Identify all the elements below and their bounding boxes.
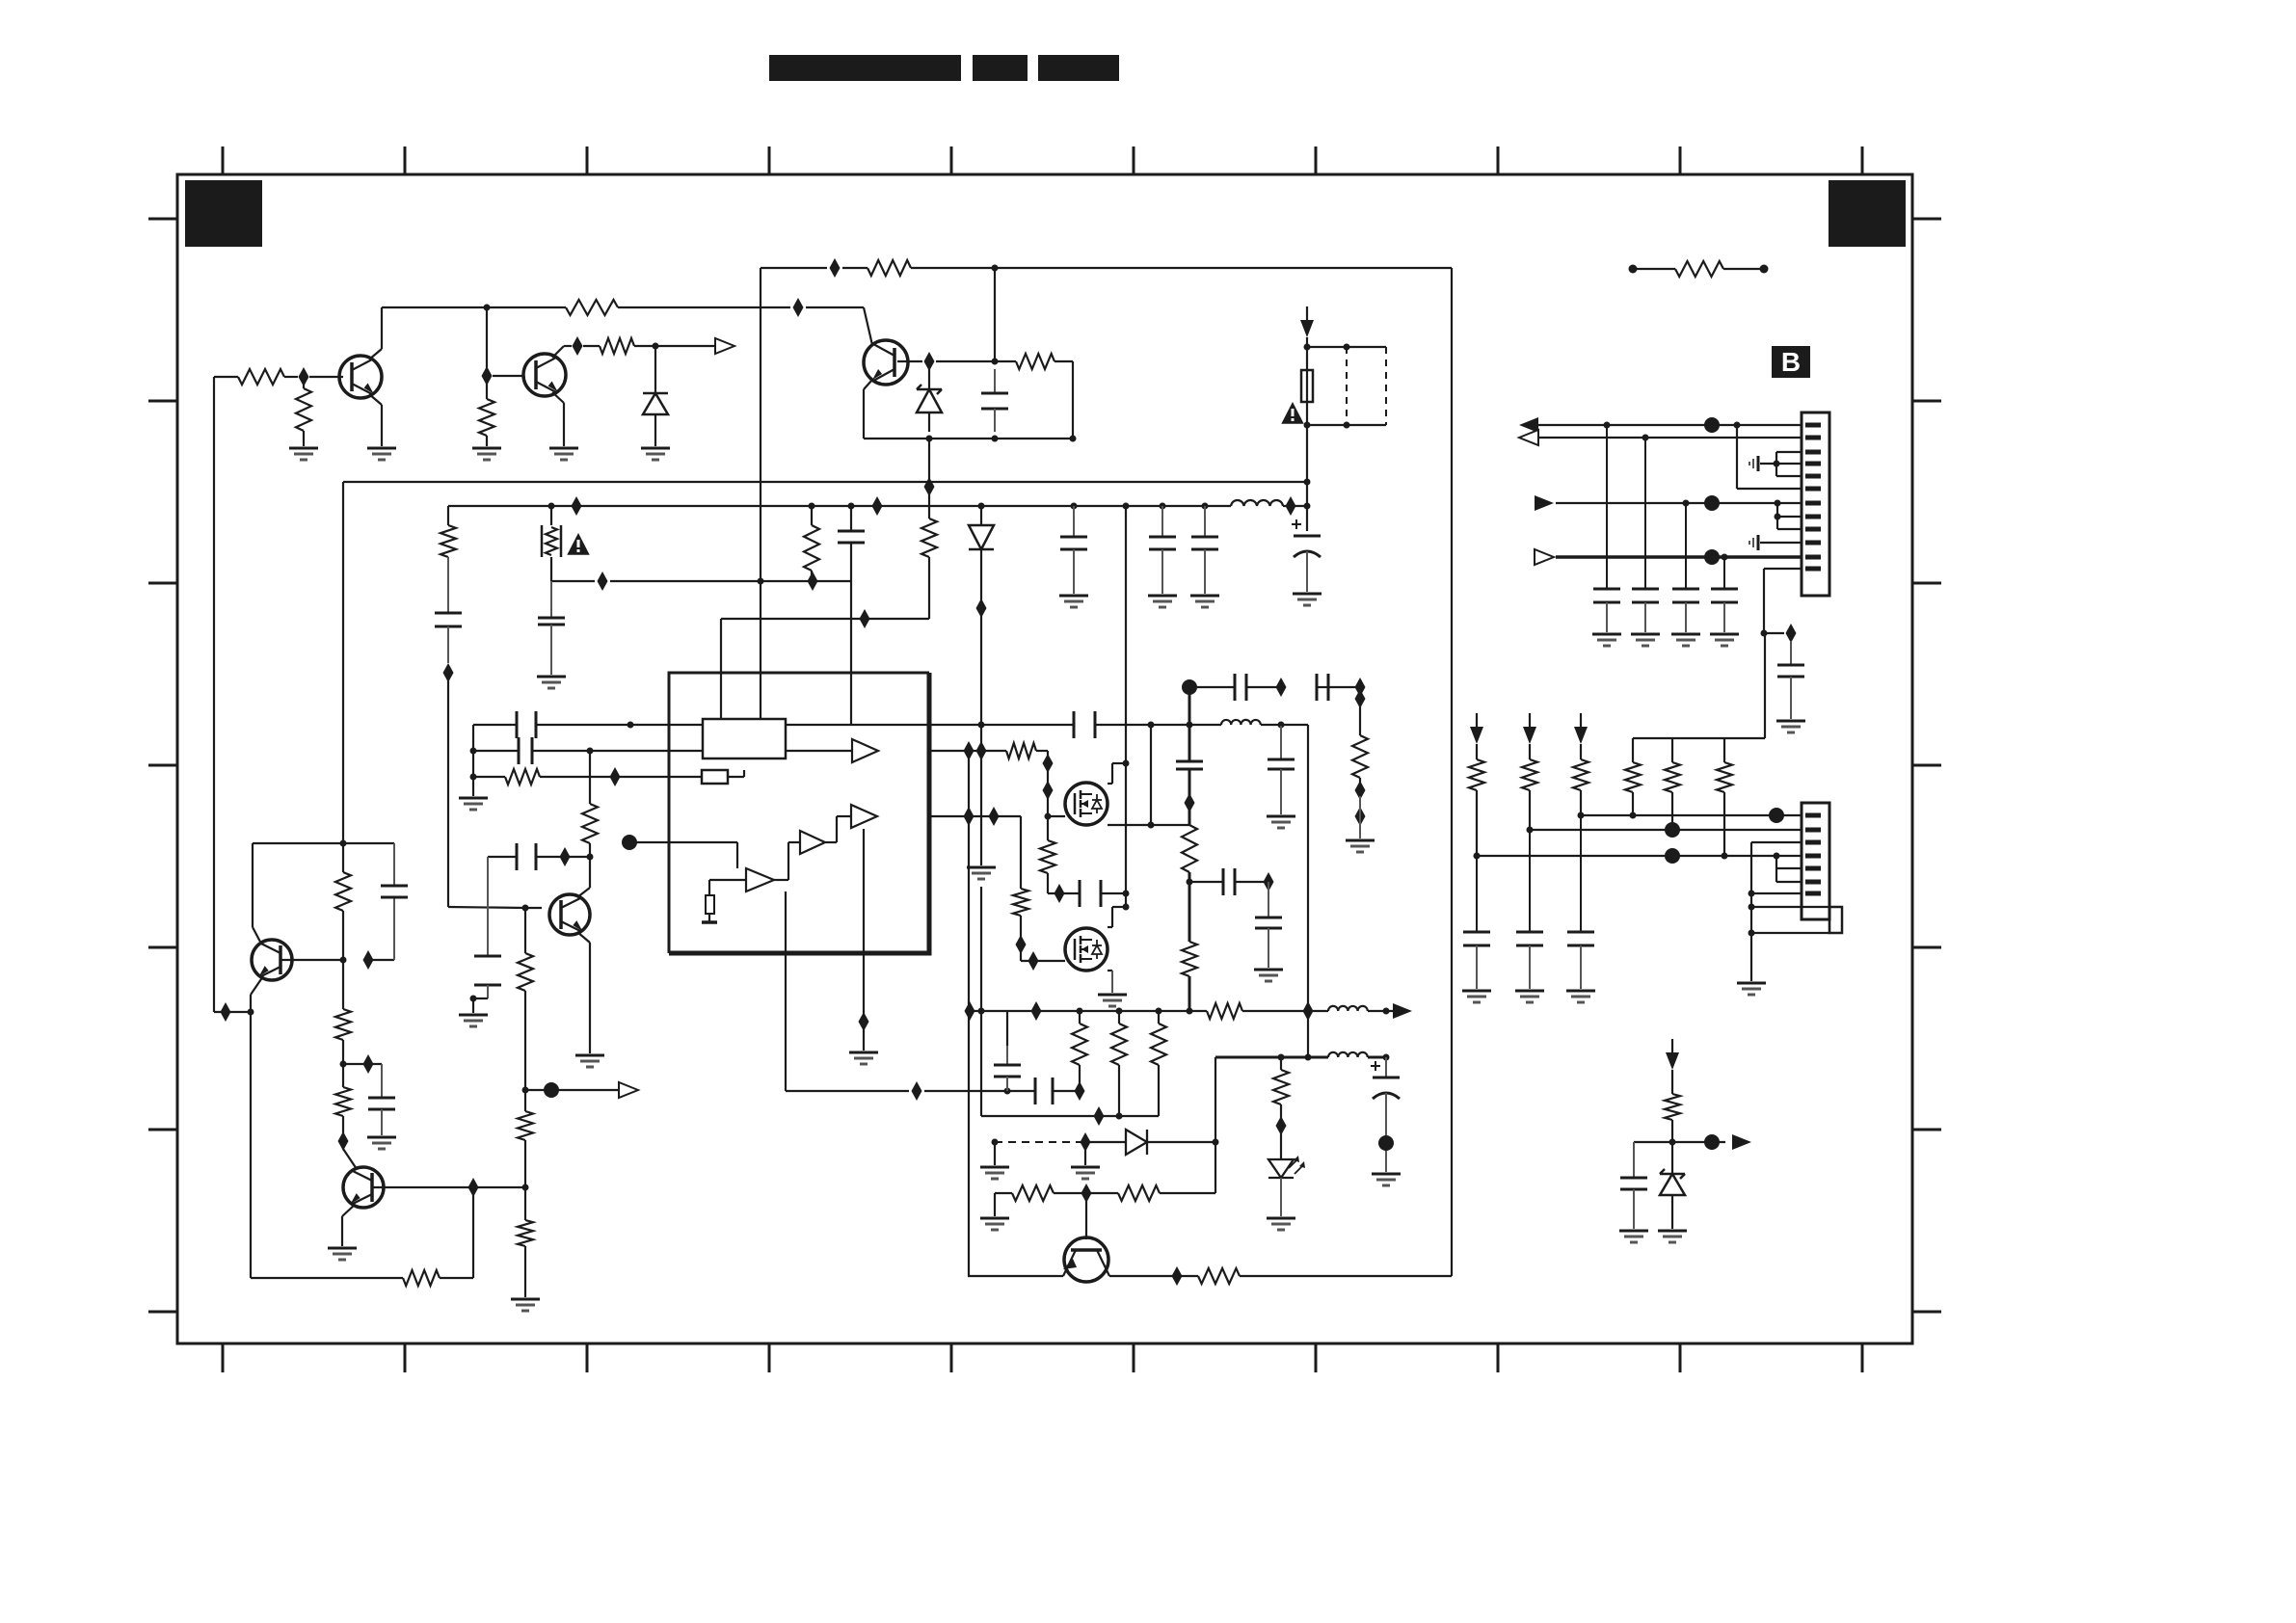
capacitor C5	[538, 581, 565, 675]
node dot A1	[484, 305, 491, 311]
node diamond AK1	[1276, 1116, 1287, 1135]
wire fuse to bus	[1306, 402, 1308, 531]
wire chain x=1640 lower	[1580, 815, 1582, 932]
wire CN2 tail link2	[1751, 907, 1829, 933]
bus2 node dot x=842	[809, 503, 815, 510]
capacitor C11	[517, 711, 536, 738]
wire Q4 base	[280, 959, 343, 961]
node diamond V1	[964, 807, 974, 826]
node dot AG3	[1213, 1139, 1219, 1146]
resistor R22	[1182, 825, 1197, 872]
node diamond on Q2 base	[482, 366, 493, 386]
wire Q2 emitter	[552, 392, 564, 446]
IC U1 outline	[669, 673, 929, 953]
resistor R15	[335, 843, 351, 960]
resistor R6	[1016, 354, 1055, 369]
wire net I (y=779)	[473, 750, 703, 752]
node dot AJ1	[1278, 1054, 1285, 1061]
ground under pin3 net	[1737, 983, 1766, 995]
resistor R13	[518, 1090, 533, 1187]
wire AG riser (x=1261)	[1215, 1057, 1216, 1193]
wire net AR (y=766)	[1633, 633, 1765, 738]
node dot AG1	[992, 1139, 999, 1146]
node dot P2	[248, 1009, 254, 1016]
op-amp U1b	[851, 805, 877, 828]
bus2 node dot x=1114	[1071, 503, 1078, 510]
terminal big dot Z	[1182, 679, 1197, 695]
wire chain x=1587 lower	[1529, 830, 1531, 932]
wire AA riser	[1359, 796, 1361, 838]
node dot AO4	[1775, 514, 1781, 520]
wire diode D3 top	[980, 506, 982, 525]
wire Q5 base net	[372, 1186, 525, 1188]
wire IC pin riser x=883	[850, 581, 852, 725]
wire Q3 base net (y=375)	[897, 361, 1073, 439]
wire net AU (y=888)	[1477, 855, 1802, 857]
node diamond AH1	[1081, 1184, 1092, 1203]
node dot AC6	[1156, 1008, 1162, 1015]
capacitor C31	[1711, 589, 1738, 632]
node diamond M1	[560, 847, 571, 866]
node dot L1	[522, 905, 529, 912]
node dot J2	[470, 748, 477, 755]
ground under D6	[1658, 1231, 1687, 1242]
bus2 node dot x=1168	[1123, 503, 1130, 510]
node dot J3	[470, 774, 477, 781]
node dot AS1	[1578, 812, 1585, 819]
wire Q8 source	[1108, 824, 1151, 826]
node dot AW1	[1669, 1139, 1676, 1146]
wire C2 riser	[994, 268, 996, 361]
node dot I1	[587, 748, 594, 755]
node diamond AE1	[912, 1081, 922, 1101]
connector CN1	[1802, 412, 1829, 596]
node diamond X2	[1028, 951, 1039, 971]
diode D3	[969, 525, 994, 549]
small ground pin4	[1749, 456, 1758, 471]
transistor Q3	[864, 340, 908, 385]
node diamond X1	[1016, 935, 1027, 954]
ground under C27	[1776, 721, 1805, 732]
node diamond Q1d	[363, 1054, 374, 1074]
LED D5	[1268, 1133, 1305, 1178]
node dot W2	[1148, 822, 1155, 829]
capacitor C15	[381, 886, 408, 897]
node dot AJ3	[1383, 1054, 1390, 1061]
wire net M (y=889)	[488, 856, 590, 858]
ground under C7	[1059, 596, 1088, 607]
wire net AG dashed	[995, 1141, 1085, 1143]
connector CN2 tail	[1829, 907, 1842, 933]
resistor R31	[1198, 1268, 1240, 1284]
warning triangle 1	[567, 533, 589, 555]
ground under N	[459, 998, 488, 1026]
node diamond P5	[363, 950, 374, 970]
wire net AB (y=915)	[1189, 881, 1268, 883]
IC internal block 2	[702, 770, 728, 784]
node dot AT1	[1527, 827, 1534, 834]
node diamond AC3	[1031, 1001, 1042, 1021]
wire net AM (y=454)	[1536, 437, 1802, 439]
node diamond AQ2	[1786, 624, 1797, 643]
MOSFET Q8	[1065, 783, 1108, 825]
wire cap chain x=1749	[1685, 503, 1687, 589]
ground under Q7	[575, 1055, 604, 1067]
resistor R32	[1273, 1057, 1289, 1118]
node diamond AA5	[1355, 807, 1366, 826]
node diamond P1	[221, 1002, 231, 1022]
dashed alt-fuse box	[1307, 344, 1386, 429]
node diamond D3b	[976, 599, 987, 618]
wire Q2 collector	[552, 346, 564, 358]
node diamond AF1	[1094, 1106, 1105, 1126]
wire net AX (y=642)	[721, 618, 929, 620]
wire Q3 collector	[864, 307, 872, 345]
wire cap chain x=1707	[1644, 438, 1646, 589]
node diamond A2	[793, 298, 804, 317]
node dot AU3	[1722, 853, 1728, 860]
wire Q5 collector	[343, 1149, 357, 1169]
capacitor C4	[435, 613, 462, 663]
wire F riser	[447, 673, 449, 907]
ground under AG2	[1071, 1142, 1100, 1179]
ground under Q5	[328, 1248, 357, 1260]
wire pin4 ground	[1760, 463, 1802, 465]
wire IC pin top x=748	[720, 619, 722, 719]
node dot fuse bottom	[1304, 422, 1311, 429]
signal arrow out AC (filled)	[1393, 1003, 1412, 1019]
resistor R4	[479, 382, 494, 446]
ground under R24	[1346, 840, 1375, 852]
inductor L4	[1328, 1052, 1368, 1057]
terminal big dot AT2	[1665, 822, 1680, 838]
capacitor C12	[519, 737, 532, 764]
ground under C10	[1293, 594, 1322, 605]
node dot AV1	[1749, 891, 1755, 897]
wire loop right (x=1506)	[1451, 268, 1453, 1276]
node diamond R1d	[468, 1178, 479, 1197]
grid label B badge	[1772, 346, 1810, 378]
wire Q7 collector	[577, 857, 590, 897]
wire net U (y=779)	[929, 751, 1048, 816]
node diamond F1	[443, 663, 454, 682]
wire Q7 emitter	[577, 932, 590, 1053]
wire AL riser (x=1802)	[1737, 425, 1802, 489]
ground under IC pin	[849, 1052, 878, 1064]
resistor R20	[1040, 816, 1055, 893]
wire net H (y=752)	[473, 724, 703, 726]
wire net AP (y=578)	[1556, 555, 1802, 559]
node diamond Q2d	[338, 1131, 349, 1151]
capacitor C27	[1777, 641, 1804, 719]
capacitor C25	[994, 1046, 1021, 1091]
node dot AU4	[1774, 853, 1780, 860]
resistor R28	[1151, 1011, 1166, 1116]
capacitor C23	[1255, 882, 1282, 968]
wire pin10 ground	[1760, 542, 1802, 544]
resistor R27	[1111, 1011, 1127, 1116]
resistor R14	[518, 1187, 533, 1297]
capacitor C30	[1672, 589, 1699, 632]
wire net X (y=997)	[1021, 952, 1065, 961]
node diamond G3	[808, 572, 818, 591]
wire cap loop right	[368, 843, 394, 960]
ground under Q9	[1098, 995, 1127, 1006]
resistor R26	[1072, 1011, 1087, 1083]
node dot H1	[627, 722, 634, 729]
node dot AO3	[1775, 500, 1781, 507]
terminal big dot O2	[544, 1082, 559, 1098]
wire left return (x=491)	[472, 725, 474, 796]
wire fuse top	[1306, 337, 1308, 370]
capacitor C19	[1176, 761, 1203, 769]
node dot AF2	[1116, 1113, 1123, 1120]
ground under C26	[1372, 1174, 1401, 1185]
node dot T2	[1148, 722, 1155, 729]
node dot AC9	[1383, 1008, 1390, 1015]
diode D4	[1126, 1130, 1147, 1155]
resistor R2	[296, 377, 311, 446]
wire net AL (y=441)	[1536, 424, 1802, 426]
wire loop left (x=789)	[760, 268, 761, 719]
capacitor C22	[1223, 868, 1235, 895]
node dot Z2	[1187, 879, 1193, 886]
resistor R29	[1012, 1185, 1054, 1201]
node dot fuse top	[1304, 344, 1311, 351]
wire net AG solid	[1085, 1141, 1215, 1143]
corner registration square top-right	[1829, 180, 1906, 247]
capacitor C28	[1593, 589, 1620, 632]
resistor R37	[1665, 1070, 1680, 1142]
terminal big dot AP1	[1704, 549, 1720, 565]
node dot AL1	[1604, 422, 1611, 429]
transistor Q6	[1063, 1193, 1109, 1282]
ground under C29	[1631, 634, 1660, 646]
resistor R10	[505, 769, 540, 785]
wire Q4 loop top (y=875)	[253, 842, 394, 844]
capacitor C16	[368, 1064, 395, 1135]
ground under D1	[641, 448, 670, 460]
node diamond E1	[830, 258, 841, 278]
node diamond AD1	[859, 1012, 869, 1031]
terminal big dot AL2	[1704, 417, 1720, 433]
ground under R2	[289, 448, 318, 460]
wire D riser x=964	[928, 439, 930, 479]
capacitor chain x=1532	[1463, 932, 1490, 989]
wire M riser (x=506)	[487, 857, 489, 956]
node dot AL3	[1734, 422, 1741, 429]
bus2 node dot x=1206	[1160, 503, 1166, 510]
transistor Q5	[343, 1167, 384, 1208]
transistor Q2	[523, 354, 566, 396]
ground under C23	[1254, 970, 1283, 981]
resistor R17	[335, 1064, 351, 1133]
node dot fuse bus2	[1304, 503, 1311, 510]
transistor Q4	[252, 940, 292, 980]
wire W riser (x=1194)	[1151, 725, 1189, 825]
capacitor C3	[981, 369, 1008, 432]
node dot P6	[340, 1061, 347, 1068]
node dot T4	[1278, 722, 1285, 729]
resistor R8	[441, 506, 456, 613]
capacitor C24	[1035, 1078, 1053, 1104]
wire pin7 link	[1751, 892, 1802, 894]
node dot AV2	[1749, 904, 1755, 911]
inductor L3	[1328, 1006, 1368, 1011]
supply arrow down x=1587	[1523, 713, 1536, 744]
ground under C9	[1190, 596, 1219, 607]
wire Q8 drain	[1108, 763, 1126, 784]
node diamond on Q1 base	[299, 367, 309, 386]
ground under R4	[472, 448, 501, 460]
node dot D3	[1070, 436, 1077, 442]
bus wire 2 (y=525)	[448, 505, 1307, 507]
wire net V (y=847)	[929, 816, 1021, 839]
long left bus wire	[214, 377, 251, 1012]
node diamond AC1	[965, 1001, 975, 1021]
node diamond U3	[1043, 754, 1054, 773]
node dot G2	[758, 578, 764, 585]
capacitor C20	[1235, 674, 1246, 701]
ground under C28	[1592, 634, 1621, 646]
wire Q5 emitter	[342, 1205, 355, 1246]
terminal big dot AU2	[1665, 848, 1680, 864]
resistor R36	[1717, 738, 1732, 856]
signal arrow in AP (open)	[1535, 549, 1554, 565]
wire net K (y=874)	[636, 841, 669, 843]
wire net AW (y=1185)	[1634, 1141, 1725, 1143]
wire D3 to net	[980, 549, 982, 725]
ground under C32	[1619, 1231, 1648, 1242]
wire P riser (x=260)	[250, 1012, 252, 1278]
resistor R19	[1006, 743, 1036, 758]
wire net AO (y=522)	[1556, 502, 1802, 504]
connector CN2	[1802, 803, 1829, 919]
supply arrow down x=1532	[1470, 713, 1483, 744]
bus2 node diamond x=1339	[1286, 496, 1296, 516]
resistor R12	[518, 908, 533, 1090]
transistor Q7	[549, 894, 590, 935]
right tick marks	[1912, 219, 1941, 1312]
wire C25 top	[1006, 1011, 1008, 1046]
node diamond B1	[573, 336, 583, 356]
capacitor C32	[1620, 1142, 1647, 1229]
wire net AI (y=1324)	[968, 1275, 1452, 1277]
inductor L1	[1231, 500, 1283, 506]
wire net AH (y=1238)	[995, 1192, 1215, 1194]
resistor R34	[1625, 738, 1641, 815]
resistor R7	[868, 260, 911, 276]
wire pin5/6 bracket	[1776, 856, 1802, 882]
capacitor C26 (electrolytic)	[1371, 1057, 1400, 1172]
resistor chain x=1640	[1573, 744, 1589, 815]
node diamond AB1	[1264, 872, 1274, 891]
svg-text:B: B	[1781, 347, 1801, 377]
ground under Q2	[549, 448, 578, 460]
node dot P4	[340, 957, 347, 964]
supply arrow down x=1640	[1574, 713, 1588, 744]
wire Q9 drain	[1108, 907, 1126, 927]
terminal big dot AW2	[1704, 1134, 1720, 1150]
diode D1	[643, 346, 668, 446]
node diamond AX1	[860, 609, 870, 628]
node dot D1	[926, 436, 933, 442]
node dot AU1	[1474, 853, 1481, 860]
resistor R21	[1013, 839, 1028, 937]
ground under C31	[1710, 634, 1739, 646]
node dot fuse bus1	[1304, 479, 1311, 486]
node dot W1	[1123, 760, 1130, 767]
capacitor C14	[474, 956, 501, 998]
wire net T (y=752)	[929, 724, 1221, 726]
node diamond V2	[989, 807, 1000, 826]
node dot AJ2	[1305, 1054, 1312, 1061]
wire Q1 collector	[369, 307, 382, 359]
wire LED to ground	[1280, 1178, 1282, 1216]
node dot E2	[992, 265, 999, 272]
supply arrow down	[1300, 306, 1314, 337]
node dot AP2	[1722, 554, 1728, 561]
wire net O (y=1131)	[525, 1089, 622, 1091]
page border frame	[177, 174, 1912, 1344]
wire Q1 emitter	[369, 394, 382, 446]
isolated link resistor R33	[1629, 261, 1769, 277]
capacitor C10 (electrolytic)	[1292, 519, 1321, 592]
IC internal resistor	[702, 895, 717, 922]
wire T corner	[1261, 725, 1308, 1011]
wire net AS (y=846)	[1581, 814, 1802, 816]
signal arrow in AM (open)	[1519, 430, 1538, 445]
ground under R14	[511, 1299, 540, 1311]
wire net A (y=319)	[382, 306, 864, 308]
wire input to Q1 base	[214, 376, 343, 378]
resistor R9	[804, 506, 819, 581]
node dot AC4	[1077, 1008, 1083, 1015]
node diamond AA3	[1355, 689, 1366, 708]
resistor R1	[238, 369, 284, 385]
left tick marks	[148, 219, 177, 1312]
terminal big dot AS3	[1769, 808, 1784, 823]
inductor L2	[1221, 720, 1261, 725]
node diamond AC8	[1303, 1001, 1314, 1021]
wire net S (y=1326)	[251, 1187, 473, 1278]
ground under x=491	[459, 798, 488, 810]
node dot X3	[1123, 904, 1130, 911]
redacted title bar 2	[973, 55, 1028, 81]
wire net J (y=806)	[473, 776, 702, 778]
zener diode D6	[1660, 1142, 1685, 1229]
corner registration square top-left	[185, 180, 262, 247]
wire Q4 collector	[251, 976, 263, 1012]
node diamond U1	[964, 741, 974, 760]
node diamond Y1	[1055, 884, 1065, 903]
wire riser x=1357 lower	[1307, 1011, 1309, 1057]
capacitor chain x=1640	[1567, 932, 1594, 989]
node diamond D4b	[924, 477, 935, 496]
wire net AF (y=1158)	[981, 1115, 1159, 1117]
node diamond AA1	[1276, 678, 1287, 697]
resistor R23	[1182, 942, 1197, 976]
node diamond AG2	[1081, 1132, 1091, 1152]
capacitor C7	[1060, 506, 1087, 594]
wire CN2 tail link1	[1751, 906, 1829, 908]
wire net D (y=455)	[864, 438, 1073, 439]
node dot T1	[978, 722, 985, 729]
terminal big dot AO2	[1704, 495, 1720, 511]
resistor R11	[582, 751, 598, 857]
node dot D2b	[992, 436, 999, 442]
small ground pin10	[1749, 535, 1758, 550]
